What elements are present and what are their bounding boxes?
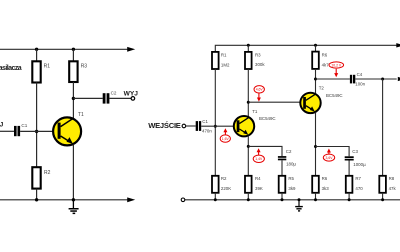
node: rail / R2 (214, 198, 217, 201)
wire: right bottom rail (185, 199, 400, 201)
wire: R3 bottom to T1 collector (247, 69, 249, 116)
wire: edge to C1 (0, 130, 14, 132)
node: output / R8 junction (381, 78, 384, 81)
wire: T1 emitter down to ground rail (72, 145, 74, 200)
resistor R6 (312, 52, 319, 69)
wire: R5 to bottom rail (281, 193, 283, 200)
wire: C4 to output (arrow cut at edge) (355, 78, 396, 80)
svg-text:10,2 V: 10,2 V (331, 63, 342, 67)
svg-text:C1: C1 (21, 123, 27, 128)
wire: emitter junction to C2 (248, 146, 282, 156)
wire: right top supply rail (215, 45, 396, 52)
svg-text:470: 470 (355, 186, 363, 191)
red voltage label 1,6V (220, 135, 230, 142)
red voltage label 1,4V (253, 155, 264, 162)
wire: R4 to bottom rail (247, 193, 249, 200)
wire: junction down to R8 (382, 79, 384, 176)
red probe arrow at T1 collector (257, 93, 261, 101)
svg-text:R2: R2 (44, 170, 51, 176)
svg-text:R1: R1 (44, 63, 51, 69)
ground (left circuit) (69, 200, 79, 214)
wire: T1 emitter down to R4 (247, 136, 249, 176)
capacitor C1 (14, 126, 17, 136)
wire: C1 to T1 base (201, 125, 233, 127)
node: base junction on R1/R2 column (214, 125, 217, 128)
wire: rail to R3 top (247, 45, 249, 52)
resistor R3 (69, 61, 77, 82)
svg-text:C2: C2 (111, 91, 117, 96)
svg-text:T1: T1 (252, 109, 258, 114)
svg-text:4k7: 4k7 (322, 62, 330, 67)
red voltage label 10,2V (329, 62, 344, 68)
svg-text:C4: C4 (357, 72, 363, 77)
node: rail / R7 (348, 198, 351, 201)
node: emitter / C2 junction (247, 145, 250, 148)
svg-text:R5: R5 (288, 176, 294, 181)
svg-text:4,6V: 4,6V (256, 88, 264, 92)
capacitor C2 (103, 93, 106, 103)
node: rail / R6b (314, 198, 317, 201)
red probe arrow at T1 emitter (257, 148, 261, 155)
wire: R2 to bottom rail (214, 193, 216, 200)
svg-text:T1: T1 (78, 112, 84, 118)
svg-text:1000µ: 1000µ (353, 162, 366, 167)
wire: left bottom rail (0, 199, 128, 201)
svg-text:3k9: 3k9 (288, 186, 296, 191)
wire: R6 bottom to T2 collector (315, 69, 317, 93)
resistor R5 (279, 176, 286, 193)
wire: C1 to T1 base (20, 130, 52, 132)
wire: R7 to bottom rail (348, 193, 350, 200)
svg-text:470n: 470n (202, 129, 212, 134)
wire: rail to R1 top (36, 49, 38, 61)
wire: left top supply rail (0, 48, 128, 50)
red probe arrow at T1 base (223, 128, 227, 135)
wire: C2 to WYJ terminal (109, 97, 131, 99)
red probe arrow at T2 emitter (327, 149, 331, 155)
svg-text:300k: 300k (255, 62, 265, 67)
wire: R8 to bottom rail (382, 193, 384, 200)
svg-text:BC549C: BC549C (259, 116, 276, 121)
node: junction top rail / R1 column (35, 48, 38, 51)
wire: emitter junction to C3 (316, 147, 350, 157)
node: rail / R6 column (314, 44, 317, 47)
svg-text:100n: 100n (355, 82, 365, 87)
capacitor C1 (right) (196, 121, 198, 131)
transistor T1 (left) (53, 117, 81, 145)
resistor R4 (245, 176, 252, 193)
wire: C2 to R5 (281, 160, 283, 176)
svg-text:R3: R3 (81, 63, 88, 69)
svg-text:R3: R3 (255, 52, 261, 57)
svg-text:3k3: 3k3 (322, 186, 330, 191)
resistor R1 (32, 61, 40, 82)
svg-text:WEJ: WEJ (0, 121, 4, 128)
wire: rail to R3 top (72, 49, 74, 61)
wire: R1 bottom to base node (36, 83, 38, 168)
svg-text:BC549C: BC549C (326, 93, 343, 98)
node: bottom rail / emitter-ground (72, 198, 75, 201)
red voltage label 4,6V (254, 86, 264, 93)
capacitor C2 (right) (278, 156, 286, 158)
node: emitter / C3 junction (314, 145, 317, 148)
svg-text:R7: R7 (355, 176, 361, 181)
svg-text:zasilacza: zasilacza (0, 65, 22, 72)
svg-text:220K: 220K (221, 186, 231, 191)
arrow at right end of left bottom rail (127, 197, 135, 202)
arrow at right end of top rail (cut at edge) (396, 43, 400, 47)
node: bottom rail / R2 (35, 198, 38, 201)
wire: R2 bottom to ground rail (36, 189, 38, 200)
terminal WYJ (131, 97, 135, 101)
red voltage label 3,6V (323, 154, 334, 161)
terminal at left end of bottom rail (181, 198, 185, 202)
svg-text:1,6V: 1,6V (222, 137, 230, 141)
transistor T2 (300, 93, 320, 113)
wire: collector junction to C4 (316, 78, 350, 80)
node: T1 collector / T2 base junction (247, 101, 250, 104)
svg-text:1M2: 1M2 (221, 62, 230, 67)
wire: R3 bottom to collector junction (72, 82, 74, 118)
node: T2 collector / C4 junction (314, 78, 317, 81)
node: rail / R3 column (247, 44, 250, 47)
svg-text:3,6V: 3,6V (326, 156, 334, 160)
wire: T1 collector to T2 base (248, 101, 300, 103)
svg-text:1,4V: 1,4V (255, 157, 263, 161)
capacitor C4 (350, 75, 352, 84)
node: rail / ground (298, 198, 301, 201)
arrow at right end of output wire (cut at edge) (398, 77, 400, 81)
resistor R1 (right) (212, 52, 219, 69)
svg-text:R1: R1 (221, 52, 227, 57)
svg-text:WYJ: WYJ (124, 91, 139, 98)
resistor R3 (right) (245, 52, 252, 69)
node: collector / C2 junction (72, 97, 75, 100)
svg-text:R4: R4 (255, 176, 261, 181)
node: junction top rail / R3 column (72, 48, 75, 51)
wire: rail to R6 top (315, 45, 317, 51)
node: rail / R5 (281, 198, 284, 201)
ground (right circuit) (295, 200, 303, 212)
svg-text:39K: 39K (255, 186, 263, 191)
wire: R1 bottom to R2 top (214, 69, 216, 176)
svg-text:R6: R6 (322, 53, 328, 58)
resistor R2 (32, 167, 40, 188)
resistor R7 (470) (346, 176, 353, 193)
resistor R8 (47k) (379, 176, 386, 193)
terminal WEJSCIE (182, 124, 186, 128)
arrow at right end of left top rail (127, 47, 135, 52)
wire: terminal to C1 (186, 125, 196, 127)
svg-text:R8: R8 (389, 176, 395, 181)
svg-text:R2: R2 (221, 176, 227, 181)
wire: T2 emitter down to R6b (315, 113, 317, 176)
svg-text:R6: R6 (322, 176, 328, 181)
svg-text:T2: T2 (319, 86, 325, 91)
capacitor C3 (345, 156, 354, 158)
svg-text:180µ: 180µ (286, 162, 296, 167)
red probe arrow at T2 collector (334, 69, 338, 77)
svg-text:C2: C2 (286, 149, 292, 154)
node: rail / R4 (247, 198, 250, 201)
node: rail / R8 (381, 198, 384, 201)
svg-text:C3: C3 (352, 149, 358, 154)
svg-text:WEJŚCIE: WEJŚCIE (148, 121, 181, 130)
svg-text:C1: C1 (202, 119, 208, 124)
wire: R6b to bottom rail (315, 193, 317, 200)
resistor R6b (3k3) (312, 176, 319, 193)
resistor R2 (right) (212, 176, 219, 193)
svg-text:47k: 47k (389, 186, 397, 191)
wire: collector junction to C2 (73, 97, 102, 99)
wire: C3 to R7 (348, 161, 350, 176)
node: base wire junction on R1/R2 column (35, 130, 38, 133)
transistor T1 (right) (234, 116, 254, 136)
